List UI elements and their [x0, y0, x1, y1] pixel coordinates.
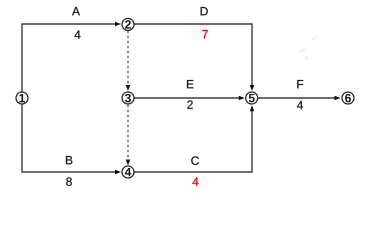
wire dummy arrow node2 to node3 (dashed): [126, 31, 131, 91]
node 6: [342, 92, 354, 104]
faint pink smudges (scan artifacts): [300, 37, 317, 59]
wire edge F (node5 right to node6): [258, 96, 341, 101]
label 8 (duration of B): [66, 177, 72, 185]
node 4: [122, 166, 134, 178]
node 5: [246, 92, 258, 104]
label D: [201, 7, 208, 15]
node 2: [122, 18, 134, 30]
label 7 (duration of D, red): [202, 30, 207, 38]
wire edge E (node3 right to node5): [134, 96, 245, 101]
label F: [297, 80, 303, 88]
wire edge B (node1 down and right to node4): [22, 104, 121, 174]
wire edge D (node2 right then down to node5): [134, 24, 254, 91]
label A: [72, 7, 80, 15]
node 1: [16, 92, 28, 104]
label C: [191, 156, 199, 164]
wire dummy arrow node3 to node4 (dashed): [126, 105, 131, 166]
wire edge A (node1 up and right to node2): [22, 22, 121, 92]
label 4 (duration of F): [297, 101, 303, 109]
label E: [187, 80, 194, 88]
label 4 (duration of A): [74, 31, 80, 39]
label 4 (duration of C, red): [192, 178, 198, 186]
wire edge C (node4 right then up to node5): [134, 105, 254, 172]
label B: [66, 156, 72, 164]
label 2 (duration of E): [187, 100, 192, 108]
node 3: [122, 92, 134, 104]
